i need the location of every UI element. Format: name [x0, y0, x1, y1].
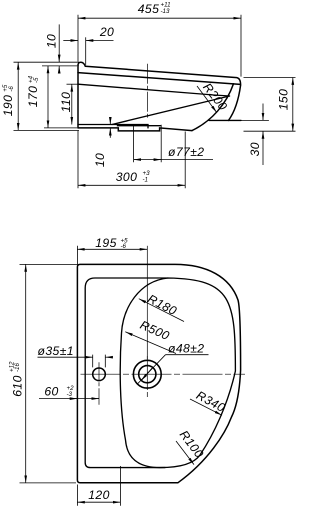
- dimension 10 (ledge) text: [45, 34, 59, 48]
- dimension 190 +5/-6 line: [17, 62, 19, 130]
- svg-text:300: 300: [116, 170, 138, 184]
- basin front R200 profile curve: [192, 84, 234, 131]
- dimension 120 line: [77, 501, 120, 503]
- radius R340 text: [194, 388, 228, 415]
- drain centerline (side view): [146, 64, 148, 118]
- dimension 150 line: [292, 78, 294, 132]
- svg-text:ø48±2: ø48±2: [168, 341, 204, 355]
- svg-text:-6: -6: [8, 86, 15, 92]
- drain recess edge: [118, 125, 161, 126]
- main horizontal centerline: [81, 373, 246, 375]
- svg-text:-6: -6: [121, 243, 127, 250]
- dimension 120 ext lines: [77, 466, 120, 506]
- dimension 30 arrows: [262, 104, 264, 121]
- dimension 110 text: [59, 92, 73, 113]
- dimension 610 text: [8, 361, 24, 397]
- basin back ledge bump: [78, 62, 85, 66]
- dimension 455 +11/-13 line: [78, 17, 241, 19]
- svg-text:110: 110: [59, 92, 73, 113]
- radius R100 leader: [176, 441, 194, 465]
- svg-text:610: 610: [10, 375, 24, 397]
- radius R340 leader: [190, 399, 222, 415]
- dimension 30 text: [248, 142, 262, 156]
- svg-text:-1: -1: [143, 176, 149, 183]
- dimension 60 +2/-3 line and arrows: [39, 398, 99, 400]
- svg-text:-3: -3: [67, 391, 73, 398]
- basin bowl inner flat bottom: [78, 125, 148, 128]
- svg-text:-16: -16: [14, 362, 21, 372]
- dimension 10 (ledge) arrows: [58, 24, 60, 62]
- dimension 610 +12/-16 ext lines: [20, 264, 80, 483]
- radius R100 text: [177, 428, 207, 461]
- dimension 10 (bottom wall) arrows: [109, 118, 111, 125]
- dimension 30 ext of near-side bottom edge: [241, 119, 269, 121]
- dimension 20 ext line: [85, 37, 87, 65]
- basin top rim far edge: [85, 66, 240, 85]
- svg-text:60: 60: [44, 385, 58, 399]
- dimension 20 arrows: [63, 40, 78, 42]
- basin inner rim edge: [78, 84, 230, 96]
- dimension 610 +12/-16 line: [25, 264, 27, 483]
- radius R500 text: [138, 318, 172, 343]
- dimension o35±1 line and arrows: [38, 356, 93, 358]
- svg-text:120: 120: [88, 488, 110, 502]
- radius R180 text: [145, 292, 179, 318]
- svg-text:20: 20: [99, 25, 114, 39]
- svg-text:-13: -13: [161, 8, 171, 15]
- svg-text:455: 455: [138, 2, 160, 16]
- dimension 455 +11/-13 ext lines: [78, 15, 241, 77]
- svg-text:190: 190: [1, 95, 15, 117]
- dimension o77 ext lines: [134, 125, 162, 162]
- basin bowl outline: [120, 278, 235, 468]
- dimension 150 text: [276, 89, 290, 111]
- drain vertical centerline / 195 ext line: [146, 246, 148, 359]
- dimension 150 ext lines: [244, 78, 296, 132]
- dimension o35±1 ext lines: [93, 355, 106, 368]
- dimension 170 text: [26, 75, 40, 107]
- drain hole circle o48: [139, 366, 156, 383]
- basin outer outline: [77, 264, 240, 482]
- dimension 195 +5/-6 left ext line: [76, 246, 78, 264]
- basin rim inner ledge edge: [85, 278, 168, 468]
- dimension 195 +5/-6 line: [77, 248, 147, 250]
- dimension 110 ext line: [67, 83, 79, 85]
- dimension 300 +3/-1 ext lines: [78, 131, 185, 188]
- dimension 10 (ledge) ext lines: [14, 62, 80, 66]
- radius R200 text: [200, 80, 230, 113]
- svg-text:ø35±1: ø35±1: [38, 344, 74, 358]
- dimension 190 +5/-6 bottom ext line: [14, 129, 80, 131]
- svg-text:ø77±2: ø77±2: [168, 145, 204, 159]
- svg-text:10: 10: [45, 34, 59, 48]
- basin front near-side curve: [229, 85, 241, 120]
- tap hole vertical centerline: [98, 362, 100, 405]
- radius R200 leader: [197, 86, 217, 113]
- svg-text:30: 30: [248, 142, 262, 156]
- radius R180 leader: [139, 299, 184, 322]
- basin bowl inner bottom slope: [112, 96, 230, 125]
- svg-text:170: 170: [26, 86, 40, 108]
- basin back wall edge: [77, 66, 79, 128]
- dimension 170 +4/-5 line: [47, 66, 49, 128]
- svg-text:150: 150: [276, 89, 290, 111]
- dimension o48±2 leader: [137, 355, 165, 385]
- dimension 170 +4/-5 bottom ext line: [44, 127, 77, 129]
- dimension 10 (bottom wall) text: [93, 153, 107, 167]
- svg-text:195: 195: [95, 236, 117, 250]
- basin outer bottom with drain flange: [78, 128, 192, 131]
- dimension 190 text: [1, 84, 15, 116]
- svg-text:10: 10: [93, 153, 107, 167]
- basin near-side bottom edge: [209, 119, 241, 121]
- dimension o77 line and arrows: [134, 159, 213, 161]
- dimension 300 +3/-1 line: [78, 184, 185, 186]
- basin top rim near edge: [78, 73, 240, 85]
- svg-text:-5: -5: [33, 77, 40, 83]
- drain flange circle: [133, 360, 161, 388]
- radius R500 leader: [125, 332, 176, 354]
- dimension 110 line: [71, 84, 73, 124]
- tap hole circle o35: [93, 368, 106, 381]
